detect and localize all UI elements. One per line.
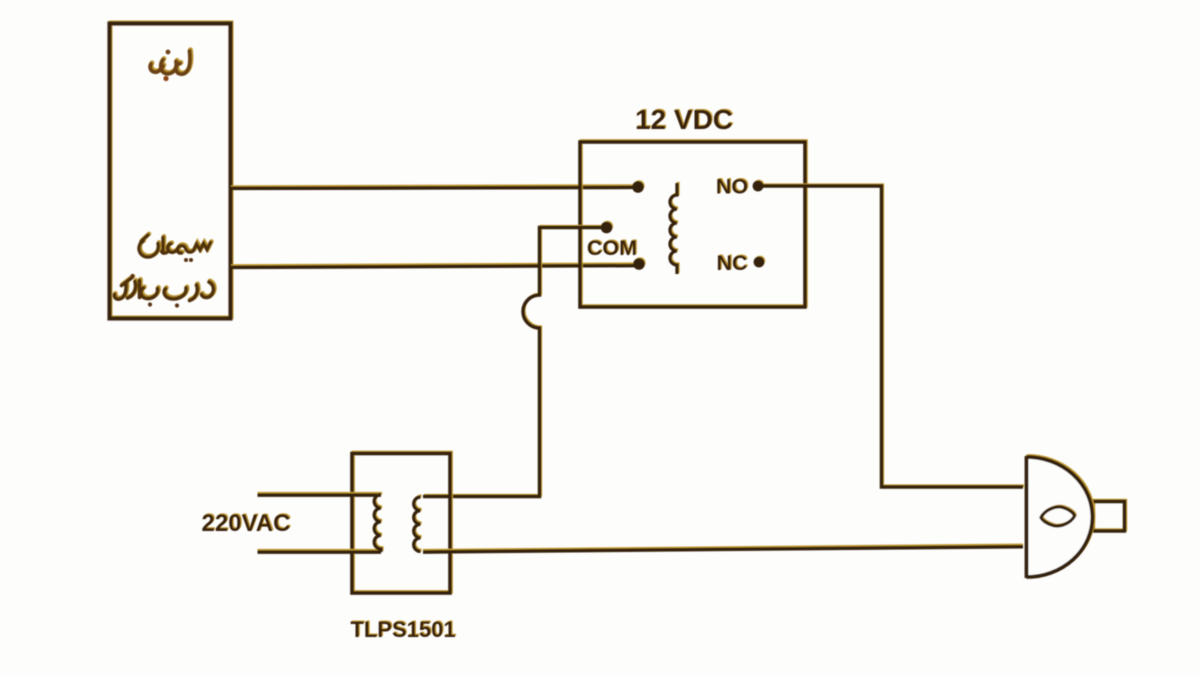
buzzer terminal tab [1093, 500, 1126, 531]
relay terminal dot NC [754, 256, 766, 268]
buzzer lens (eye) [1041, 506, 1076, 526]
transformer box TLPS1501 [352, 452, 451, 593]
relay terminal dot COM [601, 221, 613, 234]
svg-text:COM: COM [587, 236, 637, 260]
wire COM to transformer secondary (with hop) [423, 226, 603, 496]
wire panel to relay coil top [231, 186, 633, 189]
relay terminal dot NO [753, 180, 765, 192]
label 12 VDC [635, 103, 734, 135]
svg-text:NO: NO [716, 175, 748, 199]
label TLPS1501 [350, 616, 456, 642]
wire 220VAC bottom [258, 550, 382, 552]
svg-text:NC: NC [716, 251, 747, 275]
label COM [587, 235, 638, 260]
svg-text:12 VDC: 12 VDC [635, 104, 733, 135]
svg-text:220VAC: 220VAC [202, 510, 291, 537]
relay terminal dot coil top [632, 180, 644, 193]
wire NO to buzzer [763, 185, 1024, 487]
Persian label "درب بازکن" (door opener) [114, 274, 214, 308]
panel box (door panel) [110, 22, 232, 318]
wire transformer secondary bottom to buzzer [423, 545, 1023, 552]
transformer secondary coil [414, 496, 422, 552]
label NC [716, 250, 748, 275]
wire panel to relay coil bottom [231, 264, 635, 268]
wire 220VAC top [258, 493, 382, 495]
svg-text:TLPS1501: TLPS1501 [350, 617, 455, 642]
relay box 12VDC [580, 141, 806, 307]
label NO [716, 173, 749, 198]
Persian label "سیمهای" (wires) [139, 234, 212, 262]
transformer primary coil [374, 493, 382, 552]
label 220VAC [202, 509, 292, 537]
relay coil L1 [670, 182, 678, 274]
buzzer body (D shape) [1027, 455, 1094, 578]
relay terminal dot coil bottom [633, 257, 645, 270]
Persian label "پنل" (panel) [150, 50, 191, 82]
